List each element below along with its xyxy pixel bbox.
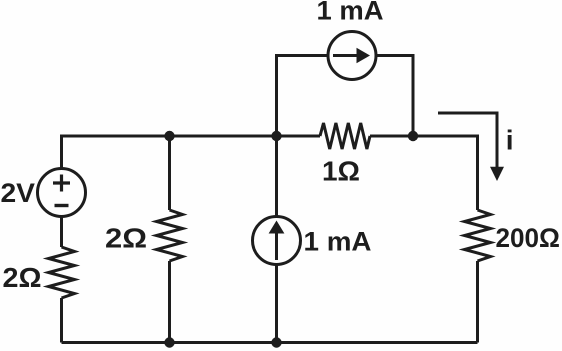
voltage source V1 2V circle (38, 169, 86, 217)
junction bottom dot 2 (271, 337, 281, 347)
resistor R1 2ohm zigzag (49, 247, 75, 298)
resistor R4 200ohm zigzag (465, 210, 491, 261)
I2 arrowhead (357, 48, 371, 64)
wire: resistor R1 bottom to bottom rail corner (60, 298, 63, 343)
svg-text:2Ω: 2Ω (105, 222, 147, 253)
svg-text:1 mA: 1 mA (304, 226, 372, 256)
resistor R3 1ohm zigzag (320, 123, 370, 149)
current source I2 1mA circle (328, 32, 376, 80)
junction bottom dot 1 (164, 337, 174, 347)
I1 arrowhead (269, 221, 285, 234)
I2 arrow shaft (333, 54, 358, 57)
V1 minus sign (55, 204, 69, 207)
wire: V1 bottom to resistor R1 top (60, 217, 63, 248)
svg-text:2Ω: 2Ω (3, 262, 42, 293)
current source I1 1mA circle (253, 217, 301, 265)
wire: resistor R4 bottom to bottom rail corner (476, 261, 479, 343)
wire: current source I1 bottom to bottom rail (275, 265, 278, 343)
junction node A dot (164, 131, 174, 141)
svg-text:2V: 2V (1, 178, 36, 208)
wire: loop up-left from node B to current source I2 (277, 56, 329, 137)
I1 arrow shaft (275, 233, 278, 260)
wire: loop from I2 right side down to node C (376, 56, 413, 137)
svg-text:200Ω: 200Ω (496, 223, 561, 253)
current arrow i (438, 113, 497, 168)
wire: bottom rail (62, 341, 478, 344)
wire top-left: node A horizontal rail with corner down to V1 (62, 136, 321, 169)
wire: node B down to current source I1 top (275, 136, 278, 217)
svg-text:1 mA: 1 mA (317, 0, 384, 26)
svg-text:1Ω: 1Ω (322, 156, 360, 187)
arrowhead of current arrow i (490, 167, 504, 181)
wire: node A down to resistor R2 top (168, 136, 171, 210)
junction node C dot (408, 131, 418, 141)
svg-text:i: i (506, 125, 514, 156)
junction node B dot (271, 131, 281, 141)
wire: resistor R2 bottom to bottom rail (168, 261, 171, 343)
V1 plus sign (53, 175, 70, 192)
wire top-right: rail from 1ohm to corner down to 200ohm (370, 136, 478, 210)
resistor R2 2ohm zigzag (157, 210, 183, 261)
